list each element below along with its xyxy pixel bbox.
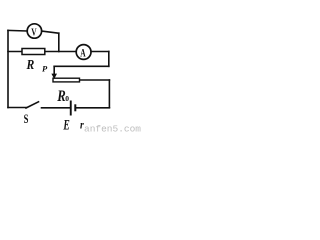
svg-text:R: R	[26, 58, 35, 73]
svg-text:P: P	[42, 64, 48, 74]
svg-text:E: E	[63, 118, 70, 134]
svg-text:S: S	[24, 112, 29, 126]
svg-text:anfen5.com: anfen5.com	[84, 124, 141, 135]
svg-text:A: A	[80, 48, 86, 60]
svg-text:0: 0	[65, 94, 69, 103]
svg-text:V: V	[31, 27, 36, 39]
